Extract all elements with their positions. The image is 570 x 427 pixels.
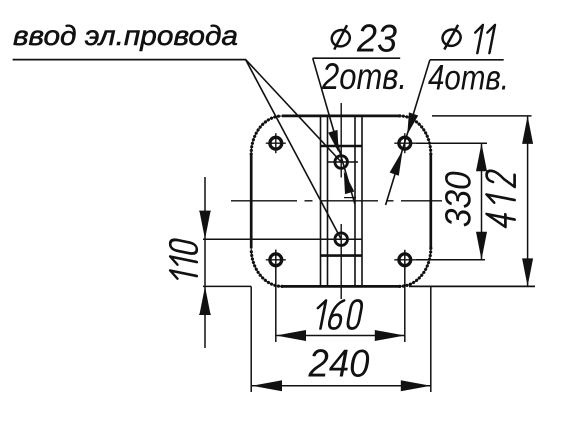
svg-text:330: 330 xyxy=(438,171,479,227)
svg-text:240: 240 xyxy=(308,343,370,386)
svg-text:ввод эл.провода: ввод эл.провода xyxy=(13,20,238,51)
svg-text:4отв.: 4отв. xyxy=(428,59,509,98)
svg-text:2отв.: 2отв. xyxy=(321,55,407,97)
